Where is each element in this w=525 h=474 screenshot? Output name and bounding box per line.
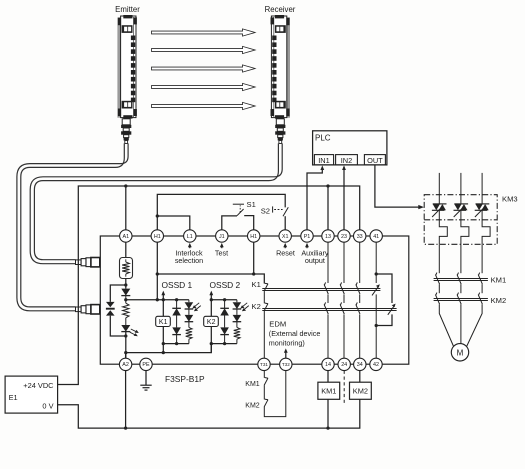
- EDM chain: K2 contact (left end): [264, 303, 268, 311]
- tap wire to OSSD circuits: [126, 299, 164, 301]
- wire A2 to 0V rail: [125, 371, 127, 428]
- wire 34 to KM2 coil: [359, 371, 361, 383]
- contactor coil KM2: [350, 382, 372, 399]
- OSSD 1 top node wire: [163, 299, 189, 301]
- overload element phase 3: [482, 210, 490, 244]
- terminal T32 (bottom): [280, 358, 292, 370]
- PE ground symbol: [140, 371, 151, 390]
- K2 row end arrow / bypass contact: [388, 304, 396, 315]
- svg-text:33: 33: [357, 234, 363, 240]
- svg-text:OUT: OUT: [367, 156, 383, 165]
- KM3 solid-state contactor box: [424, 195, 497, 245]
- terminal A1 (top): [120, 230, 132, 242]
- KM1 contact blade phase 3: [478, 273, 482, 285]
- KM2 contact blade phase 1: [435, 293, 439, 305]
- svg-text:EDM: EDM: [269, 320, 286, 329]
- wire KM1 coil to 0V rail: [327, 399, 329, 428]
- PLC input IN2: [336, 155, 358, 165]
- TVS bidirectional diode pair: [106, 302, 115, 316]
- overload element phase 1: [439, 210, 447, 244]
- K2 contact linkage line: [262, 308, 396, 310]
- EDM arrow at T32: [284, 348, 288, 358]
- OSSD 1 bottom node wire: [163, 343, 189, 345]
- OSSD 2 optocoupler branch: [233, 300, 249, 344]
- overload element phase 2: [461, 210, 469, 244]
- svg-text:S1: S1: [247, 200, 256, 209]
- light beam arrow 4: [152, 83, 256, 90]
- svg-text:S2: S2: [261, 207, 270, 216]
- svg-text:KM3: KM3: [502, 195, 518, 204]
- wire LED to A2: [125, 332, 127, 359]
- terminal 14 (bottom): [322, 358, 334, 370]
- terminal 41 (top): [370, 230, 382, 242]
- emitter cable: [17, 143, 128, 310]
- svg-text:KM1: KM1: [245, 381, 260, 388]
- emitter connector plug: [121, 119, 131, 144]
- terminal 42 (bottom): [370, 358, 382, 370]
- svg-text:OSSD 1: OSSD 1: [162, 280, 193, 290]
- arrow to J1: [220, 243, 224, 248]
- EDM chain wire to T31: [263, 311, 265, 358]
- OSSD 2 main wire: [210, 294, 212, 352]
- wire: L1 jog to H1 riser: [157, 216, 190, 230]
- svg-text:L1: L1: [187, 234, 193, 240]
- power supply E1 box: [5, 376, 58, 413]
- phase line 1 to KM1 contact: [438, 244, 440, 273]
- phase line 1 supply: [438, 173, 440, 204]
- svg-text:PE: PE: [142, 362, 150, 368]
- terminal A2 (bottom): [119, 358, 131, 370]
- K1 row end arrow / 41 contact: [372, 284, 380, 295]
- terminal PE (bottom): [140, 358, 152, 370]
- wire 41-42 with K1 contact: [375, 242, 377, 358]
- dashed wire from 24: [343, 371, 345, 404]
- KM3 box divider: [424, 219, 497, 221]
- phase line 2 to KM1 contact: [460, 244, 462, 273]
- svg-text:E1: E1: [9, 393, 18, 402]
- K1 contact linkage line: [262, 288, 380, 290]
- svg-text:KM1: KM1: [321, 387, 336, 396]
- OSSD 2 arrow: [209, 291, 213, 296]
- terminal 33 (top): [354, 230, 366, 242]
- KM2 auxiliary contact: [264, 399, 268, 407]
- motor feed wires: [439, 304, 482, 346]
- terminal 24 (bottom): [338, 358, 350, 370]
- svg-text:Reset: Reset: [276, 248, 295, 257]
- svg-text:F3SP-B1P: F3SP-B1P: [165, 374, 205, 384]
- relay coil K1: [156, 316, 171, 326]
- KM1 main contact linkage: [434, 278, 488, 280]
- wire: H1(1) down into unit: [156, 242, 158, 300]
- terminal T31 (bottom): [258, 358, 270, 370]
- A2 bus wire: [126, 344, 212, 353]
- light beam arrow 3: [152, 65, 256, 72]
- svg-text:K2: K2: [252, 302, 261, 311]
- arrow to P1: [305, 243, 309, 248]
- phase line 1 KM1-KM2: [438, 284, 440, 293]
- emitter light curtain bar: [117, 15, 136, 119]
- TVS branch return wire: [110, 316, 126, 336]
- svg-text:14: 14: [325, 362, 331, 368]
- svg-text:selection: selection: [175, 256, 203, 265]
- svg-text:H1: H1: [154, 234, 161, 240]
- svg-text:13: 13: [325, 234, 331, 240]
- wire: A1 riser from +24V rail: [125, 186, 127, 230]
- 41-42 bypass loop with K2 contact: [376, 274, 392, 303]
- OSSD 2 bottom node wire: [211, 343, 237, 345]
- OSSD 2 clamp diode pair branch: [220, 300, 229, 344]
- svg-text:K1: K1: [159, 319, 168, 326]
- switch S1 (test) wire from J1: [222, 216, 237, 230]
- relay coil K2: [204, 316, 219, 326]
- svg-text:PLC: PLC: [315, 134, 331, 143]
- OSSD 1 arrow: [161, 291, 165, 296]
- svg-text:41: 41: [373, 234, 379, 240]
- svg-text:34: 34: [357, 362, 363, 368]
- svg-text:IN2: IN2: [341, 156, 353, 165]
- wire: H1 to X1 upper link: [157, 194, 285, 229]
- switch S1 fixed side to H1(2): [244, 216, 254, 230]
- feedback loop return wire to T32: [264, 371, 286, 417]
- svg-text:0 V: 0 V: [42, 402, 53, 411]
- svg-text:42: 42: [373, 362, 379, 368]
- resistor R2 (input): [123, 303, 129, 318]
- svg-text:J1: J1: [219, 234, 225, 240]
- cable connector to unit (lower, emitter): [76, 305, 100, 314]
- KM2 contact blade phase 3: [478, 293, 482, 305]
- svg-text:(External device: (External device: [269, 329, 321, 338]
- EDM chain: K1 contact (left end): [264, 283, 268, 291]
- motor M: [451, 344, 468, 361]
- terminal 13 (top): [322, 230, 334, 242]
- wire: 13 riser to +24V rail: [327, 186, 329, 230]
- KM2 main contact linkage: [434, 298, 488, 300]
- contactor coil KM1: [318, 382, 340, 399]
- TVS suppressor branch wire: [110, 285, 126, 302]
- phase line 3 to KM1 contact: [481, 244, 483, 273]
- svg-text:X1: X1: [282, 234, 289, 240]
- wire: P1 riser to PLC IN1: [307, 170, 322, 230]
- light beam arrow 2: [152, 46, 256, 53]
- terminal H1 (top): [151, 230, 163, 242]
- svg-text:H1: H1: [250, 234, 257, 240]
- svg-text:T32: T32: [282, 362, 290, 367]
- PLC box: [313, 131, 387, 165]
- svg-text:IN1: IN1: [318, 156, 330, 165]
- svg-text:23: 23: [341, 234, 347, 240]
- svg-text:A2: A2: [122, 362, 129, 368]
- OSSD 2 top node wire: [211, 299, 237, 301]
- arrow to X1: [283, 243, 287, 248]
- wire 13-14 with K1,K2 contacts: [324, 242, 328, 358]
- receiver cable: [30, 143, 282, 263]
- svg-text:M: M: [457, 348, 464, 357]
- svg-text:P1: P1: [304, 234, 311, 240]
- svg-text:KM2: KM2: [245, 402, 260, 409]
- phase line 3 supply: [481, 173, 483, 204]
- T31-T32 external feedback loop: [263, 371, 265, 378]
- thyristor pair phase 3: [475, 204, 490, 217]
- receiver connector plug: [275, 119, 285, 144]
- phase line 2 supply: [460, 173, 462, 204]
- input resistor (boxed): [120, 258, 133, 279]
- svg-text:T31: T31: [260, 362, 268, 367]
- terminal L1 (top): [184, 230, 196, 242]
- terminal J1 (top): [216, 230, 228, 242]
- phase line 2 KM1-KM2: [460, 284, 462, 293]
- wire: 23 riser to PLC IN2: [343, 167, 345, 230]
- +24 VDC wire (E1 to rail, A1/13/33 rail): [58, 186, 360, 385]
- svg-text:+24 VDC: +24 VDC: [23, 381, 54, 390]
- wire 14 to KM1 coil: [327, 371, 329, 383]
- OSSD 1 optocoupler branch: [185, 300, 201, 344]
- KM1 contact blade phase 2: [457, 273, 461, 285]
- KM1 auxiliary contact: [264, 378, 268, 386]
- phase line 3 KM1-KM2: [481, 284, 483, 293]
- KM1 contact blade phase 1: [435, 273, 439, 285]
- svg-text:output: output: [305, 256, 325, 265]
- wire PLC OUT to KM3: [375, 165, 419, 207]
- switch S1 blade and actuator: [233, 204, 244, 216]
- svg-text:monitoring): monitoring): [269, 338, 305, 347]
- svg-text:A1: A1: [123, 234, 130, 240]
- optocoupler LED (input): [121, 318, 139, 336]
- svg-text:Receiver: Receiver: [265, 5, 296, 14]
- cable connector to unit (upper, receiver): [76, 258, 100, 267]
- svg-text:K2: K2: [207, 319, 216, 326]
- wire 23-24 with K1,K2 contacts: [340, 242, 344, 358]
- arrow to L1: [188, 243, 192, 248]
- wire A1 down to input resistor: [125, 242, 127, 257]
- svg-text:K1: K1: [252, 280, 261, 289]
- terminal 34 (bottom): [354, 358, 366, 370]
- terminal X1 (top): [279, 230, 291, 242]
- terminal 23 (top): [338, 230, 350, 242]
- safety relay unit F3SP-B1P enclosure: [100, 236, 409, 364]
- wire A2 riser: [125, 353, 127, 359]
- svg-text:KM1: KM1: [491, 275, 507, 284]
- KM2 contact blade phase 2: [457, 293, 461, 305]
- wire resistor to D1: [125, 279, 127, 289]
- svg-text:KM2: KM2: [353, 387, 368, 396]
- svg-text:Emitter: Emitter: [115, 5, 140, 14]
- terminal H1 (top): [248, 230, 260, 242]
- PLC output OUT: [364, 155, 385, 165]
- wire 33-34 with K1,K2 contacts: [356, 242, 360, 358]
- light beam arrow 5: [152, 102, 256, 109]
- svg-text:KM2: KM2: [491, 296, 507, 305]
- 0 V wire (E1 to bottom rail): [58, 400, 360, 429]
- terminal P1 (top): [301, 230, 313, 242]
- thyristor pair phase 1: [432, 204, 447, 217]
- switch S2 (reset) blade on X1 riser: [273, 206, 289, 229]
- thyristor pair phase 2: [454, 204, 469, 217]
- light beam arrow 1: [152, 29, 256, 36]
- PLC input IN1: [314, 155, 333, 165]
- wire: H1 rail to K1/K2 contact chain (y=274): [157, 274, 264, 284]
- svg-text:24: 24: [341, 362, 347, 368]
- OSSD 1 main wire: [162, 294, 164, 352]
- receiver light curtain bar: [271, 15, 291, 119]
- OSSD 1 clamp diode pair branch: [172, 300, 181, 344]
- wire: H1(2) down to rail: [253, 242, 255, 274]
- diode D1 (input): [121, 289, 130, 296]
- svg-text:OSSD 2: OSSD 2: [210, 280, 241, 290]
- EDM chain wire between contacts: [263, 291, 265, 303]
- svg-text:Test: Test: [215, 248, 228, 257]
